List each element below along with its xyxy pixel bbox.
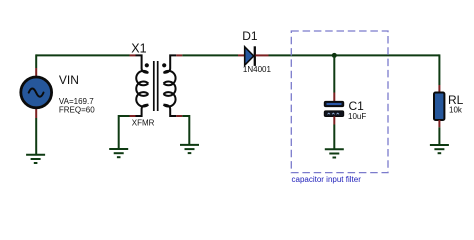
ground under transformer right (180, 145, 199, 153)
ac source VIN (21, 77, 52, 108)
wire RL to ground (438, 127, 440, 145)
svg-text:FREQ=60: FREQ=60 (59, 105, 95, 114)
transformer X1 body (136, 55, 177, 116)
wire junction down to C1 (333, 55, 335, 92)
node junction at C1 (332, 53, 337, 58)
lead VIN bottom stub (35, 108, 37, 118)
svg-text:10uF: 10uF (348, 112, 366, 121)
lead C1 bottom stub (333, 116, 335, 124)
ground under RL (430, 145, 449, 153)
svg-text:XFMR: XFMR (132, 119, 155, 128)
svg-text:10k: 10k (449, 106, 463, 115)
lead transformer pin3 stub (130, 115, 136, 117)
wire transformer pin4 to ground (182, 116, 189, 146)
ground under VIN (26, 155, 45, 163)
wire VIN top vertical (35, 54, 37, 68)
lead RL top stub (438, 85, 440, 93)
lead transformer pin1 stub (130, 54, 136, 56)
lead diode cathode stub (256, 54, 269, 56)
capacitor C1 (324, 101, 343, 116)
wire diode to RL corner (269, 54, 440, 56)
svg-text:C1: C1 (349, 99, 365, 113)
ground under transformer left (109, 149, 128, 157)
wire RL top vertical (438, 54, 440, 85)
wire VIN bottom vertical (35, 118, 37, 155)
svg-text:1N4001: 1N4001 (243, 65, 272, 74)
svg-text:VIN: VIN (59, 73, 79, 87)
wire transformer pin3 to ground (119, 116, 130, 149)
wire C1 to ground (333, 125, 335, 150)
diode D1 (245, 46, 255, 66)
annotation box capacitor input filter (291, 31, 388, 173)
svg-text:D1: D1 (242, 29, 258, 43)
lead C1 top stub (333, 93, 335, 102)
lead diode anode stub (238, 54, 245, 56)
resistor RL (434, 93, 444, 121)
lead transformer pin2 stub (176, 54, 182, 56)
lead transformer pin4 stub (176, 115, 182, 117)
wire transformer to diode (182, 54, 238, 56)
svg-text:X1: X1 (131, 42, 146, 56)
ground under C1 (325, 149, 344, 157)
lead VIN top stub (35, 68, 37, 77)
svg-text:capacitor input filter: capacitor input filter (292, 175, 362, 184)
lead RL bottom stub (438, 120, 440, 127)
wire top rail from VIN to transformer (36, 54, 129, 56)
